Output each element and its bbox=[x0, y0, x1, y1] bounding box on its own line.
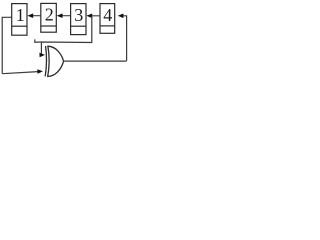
svg-text:2: 2 bbox=[45, 4, 54, 24]
register box 4 bbox=[100, 4, 115, 34]
feedback wire right vertical into box 4 bbox=[118, 14, 127, 61]
register box 2 bbox=[41, 3, 57, 32]
register box 3 bbox=[71, 4, 86, 35]
wire box1 output left bbox=[2, 17, 12, 73]
svg-text:3: 3 bbox=[74, 5, 83, 25]
xor input arc bbox=[45, 46, 46, 76]
wire bottom to xor lower input bbox=[2, 69, 43, 74]
wire arrow box3 to box2 bbox=[57, 13, 71, 18]
tap wire from node between box3 and box4 bbox=[35, 16, 92, 55]
svg-text:1: 1 bbox=[16, 5, 25, 25]
xor output wire bbox=[64, 60, 127, 62]
svg-text:4: 4 bbox=[103, 5, 112, 25]
arrow into xor upper input bbox=[39, 53, 45, 58]
xor gate U1 bbox=[45, 46, 63, 77]
wire arrow box4 to box3 bbox=[86, 14, 100, 19]
wire arrow box2 to box1 bbox=[27, 13, 40, 18]
register box 1 bbox=[12, 4, 27, 36]
xor body bbox=[48, 46, 64, 76]
